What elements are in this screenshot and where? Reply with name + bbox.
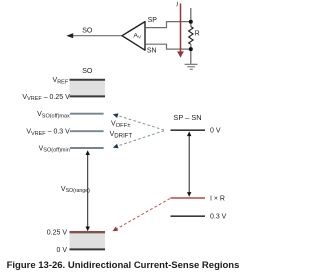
svg-text:Figure 13-26. Unidirectional C: Figure 13-26. Unidirectional Current-Sen… [7,260,240,271]
level line 0.25V (red) [70,231,106,233]
range arrow VSO(range) [87,153,89,230]
dashed offset line upper [117,115,165,130]
shaded region 0V band [70,233,106,248]
node junction top [189,20,193,24]
svg-text:I: I [176,1,178,8]
arrowhead offset lower [112,144,118,150]
wire resistor bottom lead [190,44,192,64]
arrowhead offset upper [112,112,118,118]
svg-text:SO: SO [82,68,93,75]
wire SP [146,22,190,28]
dashed offset line lower [117,131,165,147]
ground [185,63,198,65]
arrowhead SO output [66,33,73,38]
svg-text:SN: SN [147,48,157,55]
svg-text:0 V: 0 V [210,128,221,135]
svg-text:SO: SO [82,28,93,35]
op-amp Av [122,22,145,51]
svg-text:SP: SP [148,17,158,24]
svg-text:0 V: 0 V [56,247,67,254]
svg-text:0.25 V: 0.25 V [47,230,68,237]
svg-text:R: R [195,31,200,38]
arrowhead map red [111,227,118,234]
level line VSO(off)min [70,147,104,149]
wire resistor top lead [190,8,192,27]
level line VSO(off)max [70,113,104,115]
level line VREF [70,79,106,81]
current arrow I [180,4,182,53]
svg-text:I × R: I × R [210,195,225,202]
dashed map line IxR to 0.25V (red) [117,199,170,229]
svg-text:0.3 V: 0.3 V [210,214,227,221]
resistor R [189,27,194,45]
level line 0V (left) [70,248,106,250]
shaded region VREF band [70,81,106,96]
wire SN [146,44,190,49]
level line IxR (red) [171,197,206,199]
level line 0V (right) [171,129,206,131]
range arrow SP-SN [188,134,190,195]
level line VVREF-0.3V [70,130,104,132]
level line 0.3V [171,215,206,217]
level line VVREF-0.25V [70,95,106,97]
svg-text:SP – SN: SP – SN [173,113,201,122]
wire SO output [70,35,122,37]
node junction bottom [189,47,193,51]
